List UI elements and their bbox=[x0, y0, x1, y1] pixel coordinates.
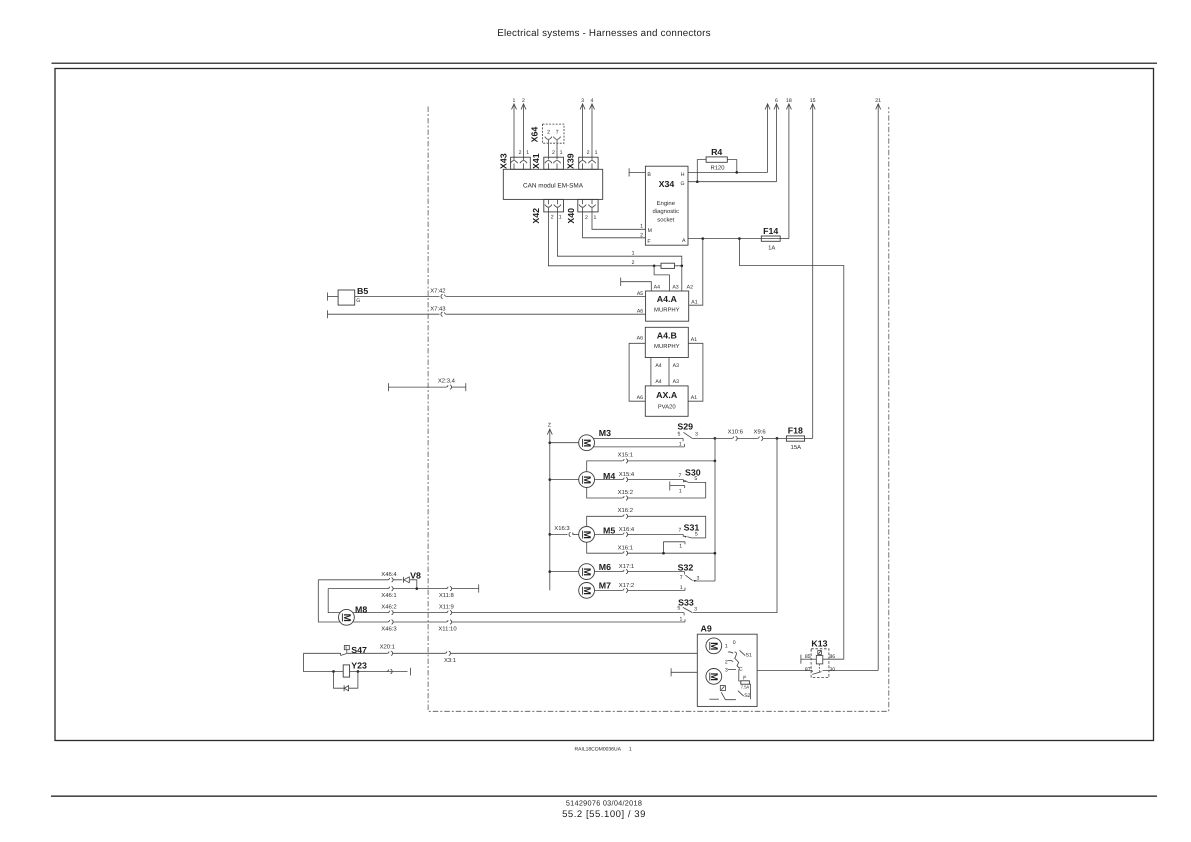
wire X34 A bbox=[688, 238, 761, 240]
svg-text:7.5A: 7.5A bbox=[741, 685, 750, 690]
wire S30 pin5 loop to X15:2 bbox=[689, 482, 706, 498]
wire S29 pin3 to bus bbox=[692, 437, 732, 440]
svg-text:A1: A1 bbox=[691, 395, 697, 401]
svg-text:2: 2 bbox=[587, 150, 590, 156]
wire K13 30 to arrow 21 bbox=[823, 669, 879, 671]
svg-text:X46:3: X46:3 bbox=[381, 626, 397, 633]
wire M3 to S29 pin1 bbox=[593, 444, 684, 447]
svg-text:F18: F18 bbox=[788, 426, 803, 436]
connector X41 label bbox=[531, 153, 541, 169]
svg-text:1: 1 bbox=[526, 150, 529, 156]
connector X41 bbox=[544, 150, 564, 169]
motor M5 bbox=[579, 526, 616, 543]
svg-text:A3: A3 bbox=[672, 284, 678, 290]
svg-text:AX.A: AX.A bbox=[656, 390, 678, 400]
wire 3 arrow bbox=[580, 98, 585, 160]
connector X64 bbox=[543, 124, 565, 159]
motor M3 bbox=[579, 428, 611, 450]
svg-text:X16:4: X16:4 bbox=[619, 526, 635, 533]
wire X16:4 M5 to S31 bbox=[595, 526, 684, 537]
svg-text:X7:43: X7:43 bbox=[430, 305, 446, 312]
svg-text:1: 1 bbox=[559, 214, 562, 220]
node R4 to H bbox=[735, 171, 738, 174]
svg-text:A4: A4 bbox=[655, 363, 661, 369]
resistor R4 bbox=[697, 147, 737, 182]
svg-text:X41: X41 bbox=[531, 153, 541, 169]
wire X34 H up bbox=[688, 171, 768, 173]
svg-text:X16:2: X16:2 bbox=[618, 507, 633, 514]
svg-text:M3: M3 bbox=[599, 428, 611, 438]
A9 internal fuse bbox=[739, 669, 751, 699]
svg-text:A4.B: A4.B bbox=[657, 331, 677, 341]
wire X15:4 M4 to S30 bbox=[595, 471, 684, 482]
svg-text:M: M bbox=[648, 228, 652, 234]
A9 interlock contact bbox=[709, 686, 736, 700]
svg-text:G: G bbox=[356, 298, 360, 304]
svg-text:4: 4 bbox=[591, 98, 594, 104]
motor M7 bbox=[579, 581, 611, 599]
svg-text:1: 1 bbox=[680, 616, 683, 622]
svg-text:A6: A6 bbox=[637, 309, 643, 315]
ECU A4.A bbox=[637, 284, 698, 321]
diode V8 bbox=[404, 570, 421, 582]
svg-text:3: 3 bbox=[695, 431, 698, 437]
wire X15:2 bbox=[587, 488, 706, 501]
svg-text:B5: B5 bbox=[357, 286, 368, 296]
wire Z to M3 bbox=[548, 441, 578, 444]
svg-text:6: 6 bbox=[775, 98, 778, 104]
svg-text:X17:2: X17:2 bbox=[619, 582, 634, 589]
svg-text:X34: X34 bbox=[659, 179, 675, 189]
svg-text:F: F bbox=[647, 239, 650, 245]
svg-text:15: 15 bbox=[810, 98, 816, 104]
connector X9:6 bbox=[754, 428, 787, 440]
svg-text:X11:10: X11:10 bbox=[438, 626, 457, 633]
motor M4 bbox=[579, 471, 616, 488]
svg-text:A4: A4 bbox=[655, 379, 661, 385]
wire M8 upper left loop bbox=[328, 589, 340, 613]
bus S29 vertical bbox=[714, 438, 716, 581]
motor M6 bbox=[579, 562, 611, 580]
svg-text:1A: 1A bbox=[768, 244, 775, 251]
wire B5 to A4.A A5 bbox=[355, 295, 646, 297]
svg-text:X43: X43 bbox=[498, 153, 508, 169]
wire S32 pin3 to bus bbox=[694, 580, 715, 582]
termination resistor on CAN pair bbox=[661, 263, 675, 268]
svg-text:A3: A3 bbox=[673, 379, 679, 385]
switch S30 bbox=[670, 468, 701, 495]
svg-text:M7: M7 bbox=[599, 581, 611, 591]
svg-text:A9: A9 bbox=[701, 623, 712, 633]
svg-text:S32: S32 bbox=[678, 563, 694, 573]
svg-text:CAN modul EM-SMA: CAN modul EM-SMA bbox=[523, 182, 584, 189]
node Z arrow bbox=[547, 422, 552, 590]
svg-text:2: 2 bbox=[725, 659, 728, 665]
X34 B stub terminal bbox=[629, 168, 645, 176]
header rule bbox=[52, 62, 1158, 64]
svg-text:X15:2: X15:2 bbox=[618, 489, 633, 496]
svg-text:X15:4: X15:4 bbox=[619, 471, 635, 478]
wire X16:2 bbox=[587, 507, 706, 538]
svg-text:2: 2 bbox=[585, 215, 588, 221]
X7:43 stub terminal bbox=[327, 310, 329, 318]
connector X42 label bbox=[531, 208, 541, 224]
wire arrow to H bbox=[765, 104, 770, 172]
wire M3 to S29 pin5 bbox=[593, 438, 683, 441]
svg-text:A1: A1 bbox=[691, 299, 697, 305]
wire 6 arrow bbox=[774, 98, 779, 182]
svg-text:A2: A2 bbox=[687, 284, 693, 290]
svg-text:S2: S2 bbox=[744, 693, 750, 699]
harness boundary (dash-dot) bbox=[428, 107, 889, 712]
switch S33 bbox=[677, 598, 697, 623]
connector X39 label bbox=[565, 153, 575, 169]
svg-text:A6: A6 bbox=[637, 395, 643, 401]
wire X40:2 to X34 F bbox=[583, 208, 646, 239]
wire X7:43 to A4.A A6 bbox=[328, 313, 646, 315]
svg-text:X15:1: X15:1 bbox=[618, 452, 633, 459]
svg-text:Z: Z bbox=[548, 422, 551, 428]
svg-text:A3: A3 bbox=[673, 363, 679, 369]
svg-text:5: 5 bbox=[677, 431, 680, 437]
wire X17:1 M6 to S32 bbox=[595, 563, 685, 574]
svg-text:X46:4: X46:4 bbox=[381, 571, 397, 578]
svg-text:X3:1: X3:1 bbox=[444, 657, 456, 664]
svg-text:X11:9: X11:9 bbox=[439, 604, 454, 611]
svg-text:1: 1 bbox=[632, 250, 635, 256]
wire Z to M5 with X16:3 bbox=[548, 525, 578, 537]
svg-text:G: G bbox=[680, 181, 684, 187]
svg-text:5: 5 bbox=[677, 605, 680, 611]
svg-text:1: 1 bbox=[679, 544, 682, 550]
connector X7:42 bbox=[430, 288, 446, 299]
svg-text:A5: A5 bbox=[637, 291, 643, 297]
svg-text:A4: A4 bbox=[654, 284, 660, 290]
flyback diode for Y23 bbox=[334, 672, 358, 692]
svg-text:1: 1 bbox=[513, 98, 516, 104]
wire A4 link bbox=[651, 358, 662, 386]
svg-text:1: 1 bbox=[595, 150, 598, 156]
svg-text:3: 3 bbox=[694, 607, 697, 613]
svg-text:A: A bbox=[682, 238, 686, 244]
wire 15 arrow bbox=[810, 98, 816, 439]
A9 S2 contact bbox=[738, 691, 751, 699]
connector X40 label bbox=[566, 208, 576, 224]
ECU A4.B bbox=[637, 327, 698, 357]
svg-text:X17:1: X17:1 bbox=[619, 563, 634, 570]
switch S32 bbox=[678, 563, 700, 591]
svg-text:B: B bbox=[647, 172, 651, 178]
svg-text:3: 3 bbox=[581, 98, 584, 104]
svg-text:H: H bbox=[681, 172, 685, 178]
svg-text:S1: S1 bbox=[746, 652, 752, 658]
switch S29 bbox=[677, 422, 698, 448]
wire 1 arrow bbox=[512, 98, 517, 160]
wire supply branch to K13 86 bbox=[739, 239, 843, 660]
svg-text:MURPHY: MURPHY bbox=[654, 343, 680, 350]
sensor B5 bbox=[328, 286, 369, 305]
svg-text:87: 87 bbox=[805, 667, 811, 673]
wire M8 lower left loop bbox=[318, 580, 340, 622]
svg-text:21: 21 bbox=[875, 98, 881, 104]
A9 internal motor lower bbox=[706, 669, 722, 685]
svg-text:socket: socket bbox=[657, 216, 674, 223]
wire X46:1 X11:8 stub bbox=[328, 584, 479, 598]
svg-text:1: 1 bbox=[679, 441, 682, 447]
wire X17:2 M7 to S32 pin1 bbox=[595, 582, 686, 593]
svg-text:R4: R4 bbox=[711, 147, 722, 157]
svg-text:7: 7 bbox=[556, 130, 559, 136]
node A to A4.A A1 bbox=[701, 237, 704, 240]
wire Z to M4 bbox=[548, 478, 578, 481]
fuse F14 bbox=[761, 226, 789, 251]
svg-text:51429076 03/04/2018: 51429076 03/04/2018 bbox=[566, 799, 642, 808]
wire 18 arrow bbox=[786, 98, 792, 239]
connector X2:3,4 stub bbox=[389, 377, 466, 391]
svg-text:7: 7 bbox=[678, 473, 681, 479]
svg-text:1: 1 bbox=[679, 489, 682, 495]
svg-text:S33: S33 bbox=[678, 598, 694, 608]
connector X64 label bbox=[530, 127, 540, 143]
svg-text:3: 3 bbox=[697, 575, 700, 581]
connector X10:6 bbox=[728, 428, 758, 440]
svg-text:X46:2: X46:2 bbox=[381, 604, 396, 611]
svg-text:A4.A: A4.A bbox=[657, 294, 678, 304]
svg-text:S30: S30 bbox=[685, 468, 701, 478]
svg-text:2: 2 bbox=[547, 130, 550, 136]
svg-text:S29: S29 bbox=[677, 422, 693, 432]
svg-text:PVA20: PVA20 bbox=[658, 403, 677, 410]
wire X46:2 X11:9 to S33 pin5 bbox=[353, 604, 684, 616]
svg-text:1: 1 bbox=[560, 150, 563, 156]
svg-text:X11:8: X11:8 bbox=[439, 592, 455, 599]
svg-text:5: 5 bbox=[695, 532, 698, 538]
switch S47 bbox=[304, 645, 368, 656]
svg-text:K13: K13 bbox=[811, 638, 827, 648]
wire X42:2 (CAN L) bbox=[548, 208, 681, 266]
svg-text:7: 7 bbox=[679, 528, 682, 534]
svg-text:X64: X64 bbox=[530, 127, 540, 143]
wire A9 to K13 contact bbox=[757, 669, 812, 671]
wire X16:1 bbox=[587, 542, 717, 555]
node CAN L junction bbox=[653, 264, 683, 267]
wire X40:1 to X34 M bbox=[592, 208, 645, 230]
svg-text:5: 5 bbox=[694, 476, 697, 482]
svg-text:RAIL18COM0036UA: RAIL18COM0036UA bbox=[575, 747, 622, 753]
relay K13 bbox=[805, 638, 835, 677]
svg-text:X10:6: X10:6 bbox=[728, 428, 744, 435]
svg-text:2: 2 bbox=[519, 150, 522, 156]
svg-text:2: 2 bbox=[552, 150, 555, 156]
svg-text:0: 0 bbox=[733, 640, 736, 646]
wire S47 to A9 with X20:1 X3:1 bbox=[348, 644, 698, 664]
svg-text:X46:1: X46:1 bbox=[381, 592, 396, 599]
connector X43 bbox=[511, 150, 531, 169]
svg-text:3: 3 bbox=[725, 667, 728, 673]
A9 selector contacts bbox=[725, 640, 752, 674]
svg-text:Engine: Engine bbox=[657, 200, 676, 207]
svg-text:F: F bbox=[743, 675, 746, 681]
svg-text:X9:6: X9:6 bbox=[754, 428, 767, 435]
svg-text:X39: X39 bbox=[565, 153, 575, 169]
node F18 input bbox=[776, 437, 779, 440]
svg-text:R120: R120 bbox=[710, 164, 725, 171]
svg-text:X40: X40 bbox=[566, 208, 576, 224]
A9 stub terminal left bbox=[671, 668, 697, 676]
connector X7:43 bbox=[430, 305, 446, 316]
wire X42:1 (CAN H) to A4.A A2 bbox=[557, 208, 681, 291]
svg-text:2: 2 bbox=[522, 98, 525, 104]
switch S31 bbox=[664, 522, 700, 553]
wire A1 riser bbox=[689, 239, 703, 306]
svg-text:15A: 15A bbox=[791, 444, 802, 451]
svg-text:A1: A1 bbox=[691, 337, 697, 343]
motor M8 bbox=[339, 604, 368, 625]
svg-text:X2:3,4: X2:3,4 bbox=[438, 377, 456, 384]
svg-text:2: 2 bbox=[640, 232, 643, 238]
wire A4.B A6 to AX.A A6 bbox=[629, 343, 645, 401]
footer rule bbox=[51, 795, 1157, 797]
svg-text:X42: X42 bbox=[531, 208, 541, 224]
wire K13 86 bbox=[823, 658, 844, 660]
CAN module A-box bbox=[503, 169, 602, 199]
wire A4.B A1 to AX.A A1 bbox=[688, 343, 703, 401]
svg-text:M6: M6 bbox=[599, 562, 611, 572]
ECU X34 engine diagnostic socket bbox=[645, 166, 688, 245]
wire X15:1 bbox=[587, 452, 717, 472]
svg-text:X16:1: X16:1 bbox=[618, 544, 633, 551]
svg-text:1: 1 bbox=[640, 224, 643, 230]
svg-text:C: C bbox=[739, 666, 743, 672]
svg-text:1: 1 bbox=[594, 215, 597, 221]
node A to K13 branch bbox=[738, 237, 741, 240]
svg-text:55.2 [55.100] / 39: 55.2 [55.100] / 39 bbox=[562, 809, 646, 820]
connector X40 bbox=[578, 199, 598, 220]
connector X43 label bbox=[498, 153, 508, 169]
ECU AX.A bbox=[637, 386, 698, 416]
wire S31 pin5 bbox=[691, 537, 705, 539]
svg-text:diagnostic: diagnostic bbox=[653, 208, 680, 215]
wire CAN L to A4.A A3 bbox=[654, 266, 669, 291]
page frame bbox=[55, 69, 1154, 741]
svg-text:MURPHY: MURPHY bbox=[654, 307, 680, 314]
wire S33 pin3 to F18 node bbox=[693, 438, 777, 612]
wire A3 link bbox=[669, 358, 679, 386]
svg-text:2: 2 bbox=[632, 260, 635, 266]
connector X39 bbox=[579, 150, 598, 169]
control unit A9 bbox=[697, 623, 757, 706]
svg-text:X7:42: X7:42 bbox=[430, 288, 445, 295]
wire 2 arrow bbox=[521, 98, 526, 160]
svg-text:18: 18 bbox=[786, 98, 792, 104]
svg-text:2: 2 bbox=[551, 214, 554, 220]
wire 4 arrow bbox=[590, 98, 595, 160]
wire X46:3 X11:10 to S33 pin1 bbox=[353, 619, 685, 632]
svg-text:X16:3: X16:3 bbox=[554, 525, 570, 532]
fuse F18 bbox=[786, 426, 812, 451]
node R4 to G bbox=[696, 180, 699, 183]
wire X34 G up bbox=[688, 181, 777, 183]
svg-text:X20:1: X20:1 bbox=[380, 644, 395, 651]
wire 21 arrow bbox=[875, 98, 881, 671]
svg-text:Electrical systems - Harnesses: Electrical systems - Harnesses and conne… bbox=[497, 28, 711, 39]
svg-text:1: 1 bbox=[725, 644, 728, 650]
solenoid Y23 bbox=[304, 653, 411, 677]
wire X46:4 with diode V8 bbox=[318, 571, 417, 589]
K13 85 stub terminal bbox=[801, 655, 816, 664]
svg-text:V8: V8 bbox=[410, 570, 421, 580]
wire Z to M6 bbox=[548, 570, 578, 573]
svg-text:A6: A6 bbox=[637, 336, 643, 342]
A9 internal motor upper bbox=[706, 638, 722, 654]
svg-text:1: 1 bbox=[629, 747, 632, 753]
connector X42 bbox=[544, 199, 564, 220]
svg-text:F14: F14 bbox=[763, 226, 778, 236]
svg-text:Y23: Y23 bbox=[351, 660, 367, 670]
A4 stub terminal bbox=[621, 278, 652, 291]
svg-text:7: 7 bbox=[680, 575, 683, 581]
